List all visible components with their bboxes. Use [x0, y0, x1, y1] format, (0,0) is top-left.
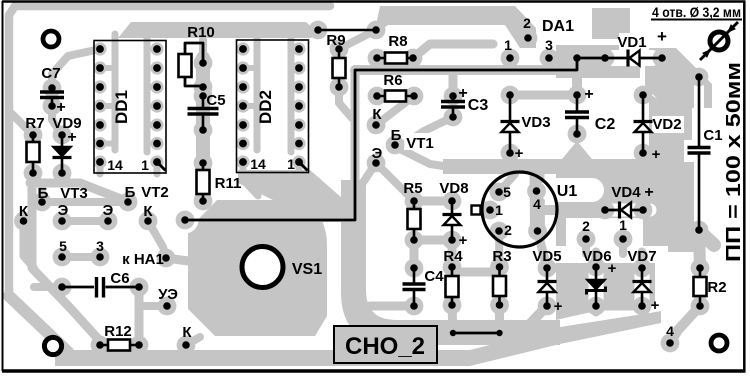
svg-text:R12: R12: [104, 323, 132, 340]
svg-text:VD2: VD2: [652, 116, 681, 133]
svg-text:R8: R8: [388, 33, 407, 50]
copper trace: C6 right / UE / R12 column: [135, 287, 144, 345]
copper trace: strip right of VS1 pour with bottom bend: [341, 180, 560, 345]
svg-text:DA1: DA1: [542, 18, 574, 35]
copper trace: K VT1 to R6 right: [376, 96, 414, 125]
svg-text:+: +: [56, 99, 65, 116]
copper trace: board outline ground trace (left+top): [9, 6, 330, 298]
copper trace: C3 top to wire trace: [449, 70, 458, 96]
svg-text:VD8: VD8: [439, 180, 468, 197]
svg-text:C2: C2: [595, 116, 616, 133]
svg-text:+: +: [458, 85, 467, 102]
svg-text:R2: R2: [707, 279, 726, 296]
label box CHO_2: [334, 326, 437, 363]
copper trace: C6 left: [34, 283, 62, 291]
svg-text:R7: R7: [25, 115, 44, 132]
DD2 pin1 marker: [300, 163, 308, 171]
thyristor U1 circle: [482, 172, 557, 247]
copper trace: VT1 emitter to R5: [376, 163, 414, 201]
mounting hole bottom-right: [711, 335, 727, 351]
svg-text:DD2: DD2: [256, 90, 275, 124]
copper trace: K pad down: [24, 221, 35, 268]
copper trace: bus above ICs: [118, 22, 318, 38]
capacitor C7: [51, 88, 54, 91]
svg-text:2: 2: [523, 15, 531, 31]
svg-text:VT3: VT3: [60, 185, 88, 202]
svg-text:R3: R3: [492, 248, 511, 265]
svg-text:3: 3: [96, 238, 104, 254]
wire: top jumper: [318, 29, 376, 31]
copper trace: VT2 collector to HA1: [148, 221, 166, 258]
diode VD3: [509, 95, 512, 153]
copper trace: U1 pin5 exit: [499, 174, 515, 192]
copper trace: pad5 to pad3: [62, 253, 100, 261]
copper trace: R9 bottom to strip: [339, 87, 352, 118]
diode VD4: [605, 209, 643, 212]
svg-text:+: +: [657, 27, 667, 46]
thyristor VS1 hole: [242, 247, 283, 288]
copper trace: R4 top to R3 top: [452, 268, 500, 277]
pad holes: [199, 59, 207, 67]
copper trace: K pad to VS1 pour: [186, 337, 200, 345]
resistor R11: [202, 163, 205, 201]
resistor R10 with wires: [185, 43, 203, 63]
capacitor C2: [576, 95, 579, 111]
IC DD2 outline: [237, 40, 309, 173]
svg-text:4: 4: [666, 323, 674, 339]
diode VD5: [546, 268, 549, 306]
copper trace: VT1 emitter to strip: [362, 163, 376, 184]
resistor R4: [451, 267, 454, 305]
wire: R4 to R3 bottom jumper: [453, 332, 500, 335]
diode VD2: [642, 95, 645, 153]
resistor R8: [377, 57, 413, 60]
copper trace: R3 bottom stub: [495, 305, 504, 333]
svg-text:УЭ: УЭ: [158, 286, 178, 303]
diode VD9: [61, 135, 64, 173]
svg-text:1: 1: [504, 37, 512, 53]
svg-text:+: +: [652, 146, 661, 163]
copper trace: C7 to DD1: [52, 49, 100, 88]
svg-text:C6: C6: [110, 270, 129, 287]
board border frame: [2, 0, 746, 3]
copper pour: C2 fan: [553, 141, 601, 170]
resistor R12: [100, 344, 139, 347]
copper pour: VD1 output blob: [645, 48, 712, 108]
diode VD1: [605, 57, 662, 60]
copper trace: C3 bottom to VT1 base: [398, 117, 453, 148]
svg-text:VS1: VS1: [292, 261, 322, 278]
svg-text:Э: Э: [103, 202, 114, 219]
svg-text:14: 14: [250, 156, 266, 172]
mounting hole bottom-left: [44, 337, 61, 354]
hole diameter symbol top-right: [710, 32, 728, 50]
copper trace: U1 pin4 column: [530, 175, 546, 231]
svg-text:R4: R4: [443, 248, 463, 265]
wire: long jumper from R11 area to DA1: [185, 58, 577, 220]
copper trace: VT3 base to VT2 base: [42, 198, 128, 206]
svg-text:Э: Э: [58, 202, 69, 219]
capacitor C5: [202, 96, 205, 108]
svg-text:R10: R10: [187, 24, 215, 41]
copper pour: band below DD2: [238, 170, 342, 222]
copper trace: VT1 base diag to band: [398, 148, 450, 167]
copper trace: VD9 top to C7 bottom: [52, 106, 62, 135]
pad rings: [194, 54, 213, 73]
copper trace: VD5 top to VD6 top: [547, 267, 596, 268]
svg-text:DD1: DD1: [112, 90, 131, 124]
svg-text:Б: Б: [38, 185, 49, 202]
copper trace: R7 top to border: [12, 114, 33, 135]
svg-text:VT1: VT1: [406, 135, 434, 152]
svg-text:VD3: VD3: [521, 114, 550, 131]
svg-text:C3: C3: [468, 97, 489, 114]
copper pour: bottom ground band: [55, 311, 661, 366]
wire: DA1 to VD1: [577, 57, 605, 60]
copper trace: R5 bottom to C4 top: [410, 240, 419, 268]
svg-text:2: 2: [504, 222, 512, 238]
svg-text:VD7: VD7: [627, 248, 656, 265]
copper trace: R8 right to top-right mass: [413, 44, 493, 58]
copper trace: VD3 bottom stub: [505, 153, 515, 166]
svg-text:1: 1: [495, 202, 503, 218]
svg-text:4: 4: [533, 196, 541, 212]
resistor R3: [498, 267, 501, 305]
copper pour: block between VD2 and C1: [649, 100, 692, 165]
svg-text:C1: C1: [703, 127, 722, 144]
copper trace: C4 bottom to strip: [370, 302, 414, 311]
svg-text:Э: Э: [372, 145, 383, 162]
svg-text:1: 1: [141, 157, 149, 173]
copper pour: VS1 thyristor area: [188, 200, 327, 336]
svg-text:14: 14: [107, 157, 123, 173]
svg-text:1: 1: [619, 217, 627, 233]
svg-text:+: +: [644, 184, 653, 201]
svg-text:U1: U1: [557, 183, 578, 200]
svg-text:Б: Б: [125, 184, 136, 201]
copper pour: right mass main: [556, 160, 694, 252]
diode VD6 (zener): [595, 267, 598, 306]
svg-text:К: К: [372, 106, 382, 123]
svg-text:VT2: VT2: [141, 184, 169, 201]
svg-text:К: К: [182, 324, 192, 341]
svg-text:4 отв. Ø 3,2 мм: 4 отв. Ø 3,2 мм: [652, 4, 741, 20]
svg-text:3: 3: [545, 37, 553, 53]
svg-text:5: 5: [503, 184, 511, 200]
copper trace: R5 top to VD8 top: [414, 197, 452, 206]
svg-text:+: +: [608, 260, 617, 277]
svg-text:+: +: [651, 297, 660, 314]
copper trace: under long wire horizontal: [355, 65, 577, 75]
copper traces: DD1 internal routing: [112, 34, 119, 150]
copper trace: vertical strip under long wire: [351, 70, 360, 180]
svg-text:R6: R6: [383, 72, 402, 89]
copper trace: VD7 bottom link: [596, 302, 642, 311]
resistor R6: [377, 95, 414, 98]
svg-text:+: +: [554, 298, 563, 315]
svg-text:VD4: VD4: [611, 184, 641, 201]
svg-text:R9: R9: [326, 32, 345, 49]
copper pour: right mass band above U1: [443, 159, 688, 174]
copper pour: right mass lower block: [556, 252, 655, 320]
copper trace: VD5 bottom to band: [524, 306, 547, 330]
copper trace: inner left trace: [32, 188, 100, 341]
capacitor C6: [62, 286, 94, 289]
copper trace: R7/VD9 bottom bus: [30, 183, 126, 201]
svg-text:+: +: [584, 86, 593, 103]
mounting hole top-left: [43, 31, 59, 47]
svg-text:R5: R5: [403, 180, 422, 197]
copper trace: R9 to top pad: [339, 31, 374, 49]
copper trace: bottom-left diagonal: [9, 296, 68, 352]
svg-text:К: К: [19, 203, 29, 220]
capacitor C1: [698, 77, 701, 147]
DD1 pin1 marker: [158, 163, 166, 171]
svg-text:к HA1: к HA1: [122, 251, 164, 268]
copper trace: VD6 bottom stub: [592, 306, 601, 312]
U1 pin1 marker square: [472, 206, 481, 215]
capacitor C3: [452, 96, 455, 101]
svg-text:2: 2: [582, 218, 590, 234]
copper trace: R5 bottom to VD8 bottom: [414, 236, 452, 245]
copper trace: U1 pin2 to R3 top: [495, 231, 504, 267]
svg-text:C5: C5: [206, 92, 225, 109]
diode VD7: [641, 268, 644, 306]
copper trace: top right wide band: [376, 6, 536, 48]
diode VD8: [451, 201, 454, 240]
copper trace: R2 bottom to pad4: [670, 306, 700, 343]
svg-text:Б: Б: [391, 127, 402, 144]
resistor R5: [413, 201, 416, 240]
copper trace: R4 bottom stub: [452, 305, 453, 333]
copper pour: top right around DA1: [592, 8, 630, 39]
svg-text:R11: R11: [215, 175, 242, 192]
copper trace: HA1 into pour: [166, 258, 196, 262]
svg-text:К: К: [143, 203, 153, 220]
copper trace: C1 bottom to R2 column: [699, 230, 700, 306]
copper trace: VD8 bottom to R4 top: [448, 240, 457, 267]
svg-text:VD1: VD1: [617, 34, 646, 51]
copper trace: VD3 to C2: [510, 91, 577, 100]
copper trace: C1 bottom pad area: [700, 232, 714, 245]
clearance channels (white): [552, 178, 592, 202]
copper trace: emitter to emitter: [62, 217, 108, 225]
IC DD1 outline: [94, 41, 166, 174]
svg-text:+: +: [459, 232, 468, 249]
svg-text:1: 1: [287, 156, 295, 172]
resistor R2: [699, 268, 702, 306]
svg-text:СНО_2: СНО_2: [345, 333, 425, 360]
svg-text:+: +: [67, 129, 76, 146]
copper trace: middle column R10/C5/R11: [199, 40, 207, 63]
resistor R9: [338, 49, 341, 87]
svg-text:5: 5: [59, 238, 67, 254]
svg-text:+: +: [515, 145, 524, 162]
capacitor C4: [413, 268, 416, 283]
svg-text:C7: C7: [41, 65, 60, 82]
resistor R7: [32, 135, 35, 173]
svg-text:ПП = 100 х 50мм: ПП = 100 х 50мм: [723, 62, 745, 262]
svg-text:C4: C4: [424, 268, 444, 285]
svg-text:VD5: VD5: [532, 248, 561, 265]
copper traces: DD2 internal routing: [254, 34, 261, 150]
